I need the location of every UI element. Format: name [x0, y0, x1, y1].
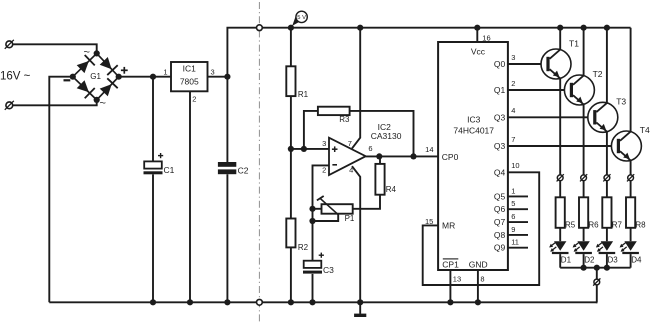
wire input lower to bridge — [13, 101, 97, 105]
svg-text:7: 7 — [511, 135, 515, 144]
connector pin LED return — [594, 279, 600, 285]
resistor R4 — [375, 164, 384, 195]
junction D3 at bus — [604, 265, 610, 271]
wire R8 to D4 — [630, 228, 632, 241]
wire R3 left leg — [304, 111, 318, 149]
label - bridge negative — [64, 79, 71, 81]
svg-text:IC3: IC3 — [467, 114, 481, 124]
wire op-amp pin7 to +5V rail — [352, 28, 360, 149]
wire GND to ground rail — [477, 270, 479, 302]
junction T1 collector at rail — [557, 25, 563, 31]
svg-text:1: 1 — [511, 186, 515, 195]
svg-text:6: 6 — [368, 144, 372, 153]
wire bridge plus to IC1 pin1 — [119, 76, 171, 78]
svg-text:CP0: CP0 — [442, 152, 459, 162]
junction pin4 at ground rail — [357, 299, 363, 305]
svg-text:Q7: Q7 — [494, 217, 506, 227]
svg-text:~: ~ — [84, 47, 90, 59]
svg-text:1: 1 — [163, 68, 167, 77]
wire bridge minus to ground rail — [49, 77, 73, 303]
junction C2 at ground rail — [224, 299, 230, 305]
svg-text:R5: R5 — [565, 221, 576, 230]
junction bus return tap — [594, 265, 600, 271]
wire node to R2 — [290, 149, 292, 219]
junction C1 tap — [150, 74, 156, 80]
wire C3 to ground rail — [312, 274, 314, 302]
input terminal K1 lower — [6, 102, 13, 109]
svg-text:T2: T2 — [593, 69, 603, 79]
wire IC1 pin2 to ground rail — [189, 91, 191, 302]
connector pin lamp 4 — [628, 175, 634, 181]
svg-text:5: 5 — [511, 199, 515, 208]
resistor R7 — [602, 197, 611, 228]
junction CP1 at ground rail — [447, 299, 453, 305]
wire bus to return connector — [596, 268, 598, 279]
svg-text:G1: G1 — [90, 72, 101, 81]
wire R5 to D1 — [559, 228, 561, 241]
wire input upper to bridge — [13, 44, 97, 52]
resistor R2 — [286, 219, 295, 248]
LED D3 — [601, 241, 613, 251]
resistor R5 — [556, 197, 565, 228]
resistor R3 — [318, 107, 350, 115]
svg-text:Q1: Q1 — [494, 85, 506, 95]
wire R2 to ground rail — [290, 247, 292, 302]
junction feedback at output — [410, 153, 416, 159]
wire T4 collector to rail corner — [630, 28, 632, 132]
svg-text:D4: D4 — [631, 255, 642, 264]
ground symbol — [359, 302, 361, 314]
bridge rectifier G1 diamond — [73, 53, 119, 100]
test point 5V balloon — [292, 14, 303, 26]
svg-text:Q6: Q6 — [494, 204, 506, 214]
bridge diode upper-left — [77, 61, 89, 73]
svg-text:MR: MR — [442, 221, 455, 231]
wire Q2 to T3 base — [508, 116, 593, 118]
wire R7 to D3 — [606, 228, 608, 241]
wire connector to R7 — [606, 181, 608, 198]
resistor R1 — [286, 66, 295, 96]
wire Q3 to T4 base — [508, 145, 617, 147]
wire IC1 pin3 output — [208, 76, 228, 78]
counter IC3 74HC4017 box — [438, 42, 508, 270]
wire op-amp pin2 to P1/C3 column — [313, 165, 330, 260]
board divider dash-dot line — [258, 2, 260, 323]
wire D4 cathode to bus — [630, 254, 632, 268]
wire R1 to noninverting node — [290, 96, 292, 149]
wire op-amp output to IC3 CP0 — [366, 155, 438, 157]
svg-text:74HC4017: 74HC4017 — [453, 125, 494, 135]
input terminal K1 upper — [6, 41, 13, 48]
svg-text:Q3: Q3 — [494, 141, 506, 151]
junction R3 feedback tap — [301, 146, 307, 152]
svg-text:GND: GND — [469, 260, 488, 270]
svg-text:14: 14 — [425, 145, 433, 154]
junction D2 at bus — [581, 265, 587, 271]
bridge diode lower-left — [77, 80, 89, 92]
junction R2 at ground rail — [288, 299, 294, 305]
svg-text:5 V: 5 V — [297, 15, 306, 21]
svg-text:13: 13 — [453, 274, 461, 283]
wire connector to R8 — [630, 181, 632, 198]
junction T3 collector at rail — [604, 25, 610, 31]
wire +5V top rail — [227, 28, 630, 77]
wire Vcc pin16 to rail — [476, 28, 478, 42]
LED D1 — [554, 241, 566, 251]
svg-text:2: 2 — [511, 79, 515, 88]
wire C1 branch lower — [152, 174, 154, 302]
wire connector to R6 — [583, 181, 585, 198]
svg-text:~: ~ — [100, 98, 106, 110]
svg-text:Q8: Q8 — [494, 230, 506, 240]
svg-text:3: 3 — [211, 68, 215, 77]
svg-text:4: 4 — [511, 106, 515, 115]
svg-text:T1: T1 — [569, 38, 579, 48]
wire T1 emitter to connector — [559, 78, 561, 174]
wire T3 emitter to connector — [606, 132, 608, 175]
svg-text:R8: R8 — [635, 221, 646, 230]
svg-text:R6: R6 — [588, 221, 599, 230]
wire op-amp pin4 to ground rail — [352, 166, 360, 302]
svg-text:11: 11 — [511, 238, 519, 247]
junction pin7 supply at rail — [357, 25, 363, 31]
junction bridge right vertex — [116, 74, 122, 80]
junction noninverting input node — [288, 146, 294, 152]
junction bridge top vertex — [94, 50, 100, 56]
junction bridge left vertex — [70, 74, 76, 80]
connector pin lamp 2 — [581, 175, 587, 181]
svg-text:Q9: Q9 — [494, 243, 506, 253]
bridge diode lower-right — [100, 84, 112, 96]
wire T2 collector to rail — [583, 28, 585, 76]
wire C2 branch upper — [226, 77, 228, 162]
junction GND at ground rail — [475, 299, 481, 305]
svg-text:8: 8 — [480, 274, 484, 283]
wire CP1 to ground rail — [449, 270, 451, 302]
wire rail to R1 — [290, 28, 292, 67]
connector pin lamp 3 — [604, 175, 610, 181]
wire ground bottom rail — [49, 301, 597, 303]
svg-text:Vcc: Vcc — [471, 47, 486, 57]
wire T4 emitter to connector — [630, 160, 632, 174]
junction P1 top terminal — [309, 206, 315, 212]
wire D2 cathode to bus — [583, 254, 585, 268]
label + bridge positive — [121, 69, 128, 71]
junction C1 at ground rail — [150, 299, 156, 305]
wire MR to Q4 reset loop — [423, 172, 540, 285]
svg-text:R3: R3 — [339, 115, 350, 124]
svg-text:R7: R7 — [612, 221, 623, 230]
capacitor C2 — [218, 162, 236, 167]
wire T2 emitter to connector — [583, 104, 585, 174]
transistor T2 — [564, 75, 594, 105]
svg-text:6: 6 — [511, 212, 515, 221]
svg-text:Q3: Q3 — [494, 112, 506, 122]
svg-text:CP1: CP1 — [442, 260, 459, 270]
svg-text:7805: 7805 — [180, 77, 199, 87]
junction pin16 at +5V rail — [474, 25, 480, 31]
LED D2 — [577, 241, 589, 251]
wire C2 branch lower — [226, 174, 228, 302]
svg-text:9: 9 — [511, 225, 515, 234]
svg-text:P1: P1 — [345, 214, 355, 223]
svg-text:7: 7 — [348, 139, 352, 148]
svg-text:16: 16 — [482, 34, 490, 43]
wire Q1 to T2 base — [508, 89, 570, 91]
svg-text:C1: C1 — [164, 165, 175, 175]
svg-text:3: 3 — [511, 53, 515, 62]
svg-text:CA3130: CA3130 — [371, 131, 402, 141]
resistor R8 — [626, 197, 635, 228]
wire return connector to ground rail — [596, 285, 599, 302]
wire C1 branch upper — [152, 77, 154, 162]
capacitor C1 electrolytic — [144, 161, 162, 168]
svg-text:T3: T3 — [616, 97, 626, 107]
wire connector to R5 — [559, 181, 561, 198]
wire P1 left terminal — [313, 208, 322, 210]
node connector on +5V rail — [257, 25, 263, 31]
svg-text:D1: D1 — [561, 255, 572, 264]
junction bridge bottom vertex — [94, 97, 100, 103]
svg-text:Q0: Q0 — [494, 59, 506, 69]
wire output to R4 — [379, 156, 381, 164]
wire P1 right to R4 bottom — [353, 195, 380, 209]
junction C2 tap / +5V corner — [224, 74, 230, 80]
capacitor C3 electrolytic — [304, 261, 322, 268]
bridge diode upper-right — [100, 57, 112, 69]
junction 5V rail R1 tap — [288, 25, 294, 31]
svg-text:2: 2 — [322, 165, 326, 174]
svg-text:16V ~: 16V ~ — [0, 71, 31, 83]
svg-text:T4: T4 — [640, 125, 650, 135]
transistor T1 — [541, 49, 571, 79]
wire R6 to D2 — [583, 228, 585, 241]
wire T3 collector to rail — [606, 28, 608, 103]
voltage regulator IC1 7805 box — [171, 62, 208, 91]
LED D4 — [624, 241, 636, 251]
svg-text:Q4: Q4 — [494, 167, 506, 177]
junction R4 tap on output — [376, 153, 382, 159]
junction C3 at ground rail — [309, 299, 315, 305]
svg-text:D3: D3 — [608, 255, 619, 264]
wire D3 cathode to bus — [606, 254, 608, 268]
svg-text:IC1: IC1 — [183, 64, 197, 74]
wire Q0 to T1 base — [508, 63, 547, 65]
svg-text:C2: C2 — [238, 165, 249, 175]
svg-text:D2: D2 — [584, 255, 595, 264]
junction T2 collector at rail — [581, 25, 587, 31]
connector pin lamp 1 — [557, 175, 563, 181]
svg-text:R1: R1 — [298, 90, 309, 99]
svg-text:10: 10 — [511, 161, 519, 170]
svg-text:C3: C3 — [323, 265, 334, 275]
wire T1 collector to rail — [559, 28, 561, 50]
wire LED cathode bus — [560, 267, 630, 269]
potentiometer P1 — [322, 204, 353, 214]
wire noninverting input to op-amp pin3 — [291, 148, 329, 150]
op-amp IC2 CA3130 triangle — [329, 138, 366, 175]
svg-text:R4: R4 — [386, 185, 397, 194]
transistor T4 — [611, 131, 641, 161]
svg-text:R2: R2 — [298, 243, 309, 252]
svg-text:Q5: Q5 — [494, 191, 506, 201]
junction IC1 pin2 at ground rail — [187, 299, 193, 305]
wire R3 right leg — [350, 111, 414, 156]
resistor R6 — [579, 197, 588, 228]
wire D1 cathode to bus — [559, 254, 561, 268]
svg-text:2: 2 — [192, 95, 196, 104]
transistor T3 — [588, 102, 618, 132]
svg-text:3: 3 — [322, 139, 326, 148]
node connector on ground rail — [257, 299, 263, 305]
junction P1 wiper return — [309, 218, 315, 224]
